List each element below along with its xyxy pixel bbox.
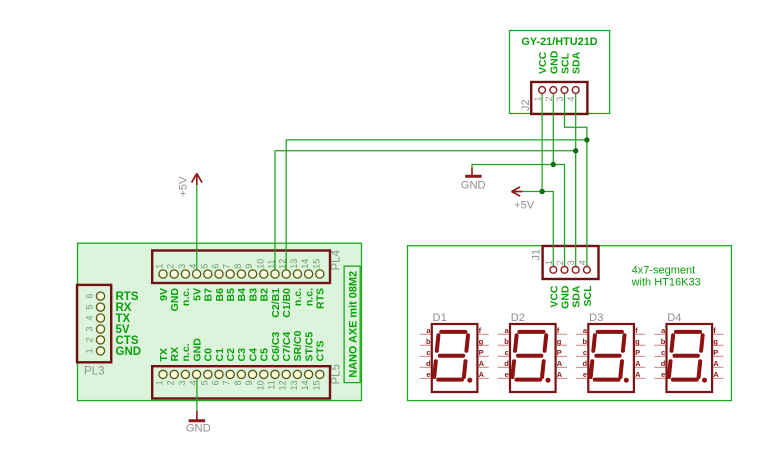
svg-text:c: c bbox=[426, 348, 430, 357]
svg-text:e: e bbox=[426, 370, 430, 379]
junction SDA net bbox=[573, 148, 578, 153]
svg-text:SCL: SCL bbox=[560, 52, 572, 74]
svg-text:SR/C0: SR/C0 bbox=[292, 330, 304, 361]
svg-text:J1: J1 bbox=[531, 249, 543, 261]
svg-text:GND: GND bbox=[169, 288, 181, 312]
svg-text:14: 14 bbox=[300, 380, 310, 390]
display D4 pin stubs right f,g,P,A,A bbox=[712, 326, 723, 379]
svg-text:P: P bbox=[557, 348, 562, 357]
display D1 body bbox=[432, 324, 478, 392]
PL3 pin numbers 6-1 bbox=[85, 294, 95, 354]
svg-text:VCC: VCC bbox=[537, 51, 549, 74]
J1 pin labels VCC GND SDA SCL bbox=[548, 285, 594, 309]
display D3 segments bbox=[591, 332, 625, 380]
svg-text:A: A bbox=[557, 370, 563, 379]
svg-text:PL3: PL3 bbox=[84, 366, 104, 378]
svg-text:9: 9 bbox=[244, 264, 254, 269]
display D1 pin stubs left a-e bbox=[420, 326, 432, 379]
svg-text:n.c.: n.c. bbox=[303, 288, 315, 306]
svg-text:7: 7 bbox=[222, 380, 232, 385]
display D2 body bbox=[510, 324, 556, 392]
svg-text:GND: GND bbox=[548, 50, 560, 74]
NANO AXE board outline bbox=[78, 243, 362, 400]
display D3 decimal point bbox=[624, 378, 629, 383]
svg-text:PL4: PL4 bbox=[330, 249, 342, 270]
svg-text:5: 5 bbox=[199, 380, 209, 385]
svg-text:C6/C3: C6/C3 bbox=[270, 332, 282, 362]
svg-text:SDA: SDA bbox=[571, 285, 583, 308]
GY-21/HTU21D module outline bbox=[510, 31, 610, 114]
PL4 pin numbers 1-15 bbox=[155, 259, 322, 269]
svg-text:c: c bbox=[661, 348, 665, 357]
svg-text:5V: 5V bbox=[191, 288, 203, 301]
svg-text:4: 4 bbox=[566, 97, 576, 102]
junction GND net bbox=[551, 162, 556, 167]
ground symbol below PL5 bbox=[196, 411, 198, 420]
svg-text:B3: B3 bbox=[247, 288, 259, 302]
svg-text:8: 8 bbox=[233, 264, 243, 269]
svg-text:C2/B1: C2/B1 bbox=[270, 288, 282, 318]
svg-text:1: 1 bbox=[155, 264, 165, 269]
connector PL3 body bbox=[77, 285, 111, 362]
junction SCL net bbox=[584, 137, 589, 142]
display D2 pin stubs right f,g,P,A,A bbox=[556, 326, 567, 379]
svg-text:15: 15 bbox=[311, 380, 321, 390]
svg-text:TX: TX bbox=[158, 348, 170, 361]
svg-text:2: 2 bbox=[166, 264, 176, 269]
svg-text:J2: J2 bbox=[520, 99, 532, 111]
svg-text:SCL: SCL bbox=[582, 285, 594, 307]
svg-text:4: 4 bbox=[85, 315, 95, 320]
module title 4x7-segment with HT16K33 bbox=[631, 265, 701, 289]
svg-text:2: 2 bbox=[166, 380, 176, 385]
wire SCL net: PL4 pin12 up and right bbox=[286, 140, 587, 274]
svg-text:GND: GND bbox=[560, 285, 572, 309]
svg-text:d: d bbox=[426, 359, 431, 368]
svg-text:g: g bbox=[557, 337, 562, 346]
svg-text:1: 1 bbox=[533, 97, 543, 102]
svg-text:GND: GND bbox=[191, 338, 203, 362]
connector PL4 body bbox=[152, 251, 330, 284]
connector J1 body bbox=[543, 246, 599, 279]
svg-text:+5V: +5V bbox=[177, 176, 189, 197]
PL4 pin labels bbox=[158, 288, 327, 318]
svg-text:2: 2 bbox=[85, 337, 95, 342]
svg-text:ST/C5: ST/C5 bbox=[303, 332, 315, 362]
wire SCL net: J2 pin3 jog right and down to J1 pin4 bbox=[565, 90, 587, 270]
svg-text:n.c.: n.c. bbox=[180, 343, 192, 361]
svg-text:B5: B5 bbox=[225, 288, 237, 302]
svg-text:13: 13 bbox=[289, 259, 299, 269]
svg-text:10: 10 bbox=[255, 380, 265, 390]
svg-text:4x7-segment: 4x7-segment bbox=[632, 265, 696, 277]
svg-text:b: b bbox=[583, 337, 588, 346]
svg-text:e: e bbox=[505, 370, 509, 379]
svg-text:1: 1 bbox=[155, 380, 165, 385]
svg-text:+5V: +5V bbox=[514, 200, 535, 212]
svg-text:GND: GND bbox=[186, 423, 211, 435]
svg-text:13: 13 bbox=[289, 380, 299, 390]
svg-text:9: 9 bbox=[244, 380, 254, 385]
svg-text:6: 6 bbox=[211, 380, 221, 385]
svg-text:c: c bbox=[505, 348, 509, 357]
wire +5V net: supply arrow to J1 pin1 bbox=[522, 192, 554, 270]
svg-text:P: P bbox=[635, 348, 640, 357]
svg-text:B4: B4 bbox=[236, 288, 248, 302]
svg-text:g: g bbox=[713, 337, 718, 346]
svg-text:2: 2 bbox=[544, 97, 554, 102]
svg-text:C0: C0 bbox=[203, 348, 215, 362]
display D1 decimal point bbox=[467, 378, 472, 383]
svg-text:6: 6 bbox=[211, 264, 221, 269]
display D3 pin stubs left a-e bbox=[576, 326, 588, 379]
svg-text:GND: GND bbox=[461, 180, 486, 192]
svg-text:15: 15 bbox=[311, 259, 321, 269]
PL4 pin circles bbox=[159, 270, 324, 278]
svg-text:GY-21/HTU21D: GY-21/HTU21D bbox=[521, 36, 597, 48]
svg-text:2: 2 bbox=[555, 260, 565, 265]
svg-text:A: A bbox=[635, 359, 641, 368]
svg-text:g: g bbox=[635, 337, 640, 346]
svg-text:B7: B7 bbox=[203, 288, 215, 302]
svg-text:e: e bbox=[661, 370, 665, 379]
svg-text:PL5: PL5 bbox=[330, 364, 342, 384]
svg-text:b: b bbox=[426, 337, 431, 346]
svg-text:P: P bbox=[713, 348, 718, 357]
display D2 pin stubs left a-e bbox=[498, 326, 510, 379]
svg-text:D1: D1 bbox=[433, 312, 447, 324]
display D2 segments bbox=[512, 332, 546, 380]
svg-text:B2: B2 bbox=[259, 288, 271, 302]
wire +5V net: J2 pin1 down bbox=[541, 90, 543, 192]
svg-text:VCC: VCC bbox=[548, 285, 560, 308]
svg-text:C3: C3 bbox=[236, 348, 248, 362]
svg-text:1: 1 bbox=[544, 260, 554, 265]
svg-text:3: 3 bbox=[177, 264, 187, 269]
svg-text:4: 4 bbox=[577, 260, 587, 265]
junction +5V net bbox=[539, 189, 544, 194]
svg-text:d: d bbox=[661, 359, 666, 368]
display D1 segments bbox=[434, 332, 468, 380]
svg-text:A: A bbox=[713, 370, 719, 379]
PL5 pin circles bbox=[159, 370, 324, 378]
svg-text:b: b bbox=[504, 337, 509, 346]
svg-text:C2: C2 bbox=[225, 348, 237, 362]
svg-text:A: A bbox=[479, 370, 485, 379]
J2 pin circles bbox=[539, 87, 579, 94]
svg-text:C1: C1 bbox=[214, 348, 226, 362]
wire +5V net: supply arrow down to PL4 pin4 bbox=[196, 185, 198, 275]
svg-text:A: A bbox=[479, 359, 485, 368]
PL5 pin numbers 1-15 bbox=[155, 380, 322, 390]
svg-text:C5: C5 bbox=[259, 348, 271, 362]
display D2 decimal point bbox=[546, 378, 551, 383]
J2 pin labels VCC GND SCL SDA bbox=[537, 50, 583, 74]
wire GND net: branch to ground symbol and J1 pin2 bbox=[472, 165, 565, 270]
svg-text:D4: D4 bbox=[667, 312, 681, 324]
svg-text:5: 5 bbox=[199, 264, 209, 269]
svg-text:n.c.: n.c. bbox=[292, 288, 304, 306]
svg-text:3: 3 bbox=[85, 326, 95, 331]
svg-text:A: A bbox=[557, 359, 563, 368]
PL3 pin circles bbox=[96, 292, 104, 355]
J1 pin circles bbox=[550, 266, 590, 273]
svg-text:10: 10 bbox=[255, 259, 265, 269]
svg-text:e: e bbox=[583, 370, 587, 379]
svg-text:12: 12 bbox=[278, 380, 288, 390]
wire GND net: J2 pin2 down bbox=[552, 90, 554, 165]
wire GND net: PL5 pin4 down to ground symbol bbox=[196, 374, 198, 411]
PL3 pin labels bbox=[116, 291, 142, 358]
svg-text:B6: B6 bbox=[214, 288, 226, 302]
svg-text:SDA: SDA bbox=[571, 51, 583, 74]
svg-text:c: c bbox=[583, 348, 587, 357]
svg-text:GND: GND bbox=[116, 346, 142, 358]
4x7-segment display module outline bbox=[408, 246, 732, 401]
connector PL5 body bbox=[152, 366, 330, 398]
svg-text:C1/B0: C1/B0 bbox=[281, 288, 293, 318]
svg-text:P: P bbox=[479, 348, 484, 357]
svg-text:A: A bbox=[635, 370, 641, 379]
wire SDA net: PL4 pin11 up and right bbox=[275, 151, 576, 274]
svg-text:11: 11 bbox=[267, 380, 277, 389]
svg-text:7: 7 bbox=[222, 264, 232, 269]
svg-text:3: 3 bbox=[177, 380, 187, 385]
svg-text:C4: C4 bbox=[247, 348, 259, 362]
svg-text:n.c.: n.c. bbox=[180, 288, 192, 306]
display D4 pin stubs left a-e bbox=[654, 326, 666, 379]
svg-text:D2: D2 bbox=[511, 312, 525, 324]
display D3 body bbox=[588, 324, 634, 392]
svg-text:d: d bbox=[504, 359, 509, 368]
wire SDA net: J2 pin4 down to J1 pin3 bbox=[575, 90, 577, 270]
+5V supply arrow (up) at PL4 bbox=[192, 173, 202, 185]
svg-text:3: 3 bbox=[555, 97, 565, 102]
svg-text:C7/C4: C7/C4 bbox=[281, 332, 293, 362]
svg-text:9V: 9V bbox=[158, 288, 170, 301]
svg-text:D3: D3 bbox=[589, 312, 603, 324]
NANO AXE label box bbox=[344, 266, 360, 383]
display D1 pin stubs right f,g,P,A,A bbox=[477, 326, 488, 379]
ground symbol near J2 bbox=[471, 168, 473, 176]
svg-text:b: b bbox=[661, 337, 666, 346]
svg-text:g: g bbox=[479, 337, 484, 346]
svg-text:5: 5 bbox=[85, 305, 95, 310]
display D4 body bbox=[667, 324, 713, 392]
svg-text:CTS: CTS bbox=[315, 341, 327, 362]
svg-text:14: 14 bbox=[300, 259, 310, 269]
svg-text:with HT16K33: with HT16K33 bbox=[631, 276, 701, 288]
J1 pin numbers 1-4 bbox=[544, 260, 588, 265]
svg-text:1: 1 bbox=[85, 348, 95, 353]
display D4 segments bbox=[669, 332, 703, 380]
svg-text:RX: RX bbox=[169, 347, 181, 362]
display D4 decimal point bbox=[702, 378, 707, 383]
display D3 pin stubs right f,g,P,A,A bbox=[634, 326, 645, 379]
+5V supply arrow (left) near J1 bbox=[512, 187, 523, 196]
svg-text:8: 8 bbox=[233, 380, 243, 385]
svg-text:RTS: RTS bbox=[315, 288, 327, 309]
svg-text:A: A bbox=[713, 359, 719, 368]
svg-text:6: 6 bbox=[85, 294, 95, 299]
J2 pin numbers 1-4 bbox=[533, 97, 577, 102]
PL5 pin labels bbox=[158, 330, 327, 361]
connector J2 body bbox=[531, 82, 587, 114]
svg-text:3: 3 bbox=[566, 260, 576, 265]
svg-text:NANO AXE mit 08M2: NANO AXE mit 08M2 bbox=[347, 271, 359, 378]
svg-text:d: d bbox=[583, 359, 588, 368]
